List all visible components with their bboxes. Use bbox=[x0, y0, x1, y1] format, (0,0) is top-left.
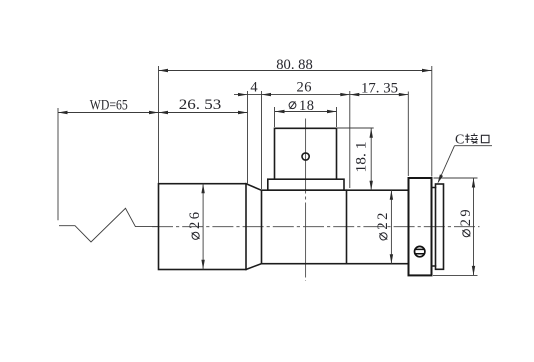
extension lines D18 block bbox=[275, 107, 337, 127]
svg-text:18: 18 bbox=[299, 98, 314, 114]
extension line x431.8 bbox=[431, 66, 433, 177]
extension line x349.8 bbox=[349, 91, 351, 188]
dimension D26 vertical bbox=[187, 184, 205, 270]
thread relief neck bbox=[432, 188, 436, 267]
dimension D22 vertical bbox=[375, 190, 393, 264]
dimension 26.53 bbox=[159, 97, 248, 114]
svg-text:22: 22 bbox=[375, 213, 391, 230]
svg-text:26. 53: 26. 53 bbox=[179, 97, 222, 113]
leader C-mount label bbox=[438, 133, 493, 184]
svg-text:18. 1: 18. 1 bbox=[354, 142, 370, 173]
front barrel cylinder D26 bbox=[159, 184, 247, 270]
taper cone section bbox=[246, 184, 262, 270]
extension line 18.1 top bbox=[337, 127, 374, 129]
port block hole circle bbox=[302, 153, 309, 160]
mid and rear tube D22 bbox=[262, 190, 409, 264]
dimension 18.1 vertical bbox=[354, 128, 373, 190]
svg-text:29: 29 bbox=[458, 209, 474, 226]
extension line front vertex x158.5 bbox=[158, 66, 160, 183]
extension lines D29 bbox=[433, 178, 478, 275]
dimension D29 vertical bbox=[458, 178, 475, 275]
svg-text:4: 4 bbox=[250, 80, 258, 96]
extension line x247.5 bbox=[247, 91, 249, 185]
set screw head bbox=[415, 246, 425, 256]
svg-text:80. 88: 80. 88 bbox=[276, 57, 313, 73]
top port block D18 bbox=[275, 128, 337, 179]
svg-text:WD=65: WD=65 bbox=[90, 98, 128, 114]
horizontal centerline bbox=[152, 226, 480, 228]
svg-text:26: 26 bbox=[187, 212, 203, 229]
svg-text:17. 35: 17. 35 bbox=[361, 81, 398, 97]
vertical centerline bbox=[305, 119, 307, 282]
glyph 接 bbox=[465, 133, 478, 143]
C-mount thread ring bbox=[436, 184, 444, 269]
rear mount flange D29 bbox=[409, 178, 432, 275]
barrel joint line bbox=[346, 190, 348, 264]
extension line x408.3 bbox=[407, 92, 409, 177]
port flange plate bbox=[268, 179, 344, 190]
extension line WD left bbox=[57, 108, 59, 220]
object plane zigzag break line bbox=[59, 208, 158, 242]
svg-text:C: C bbox=[455, 133, 464, 148]
dimension WD=65 bbox=[58, 98, 159, 115]
glyph 口 bbox=[481, 135, 489, 142]
svg-text:26: 26 bbox=[297, 80, 312, 96]
dimension 80.88 bbox=[159, 57, 432, 73]
dimension chain row: 4 / 26 / 17.35 bbox=[234, 80, 408, 97]
extension line x261.5 bbox=[261, 91, 263, 189]
dimension D18 bbox=[275, 98, 337, 114]
